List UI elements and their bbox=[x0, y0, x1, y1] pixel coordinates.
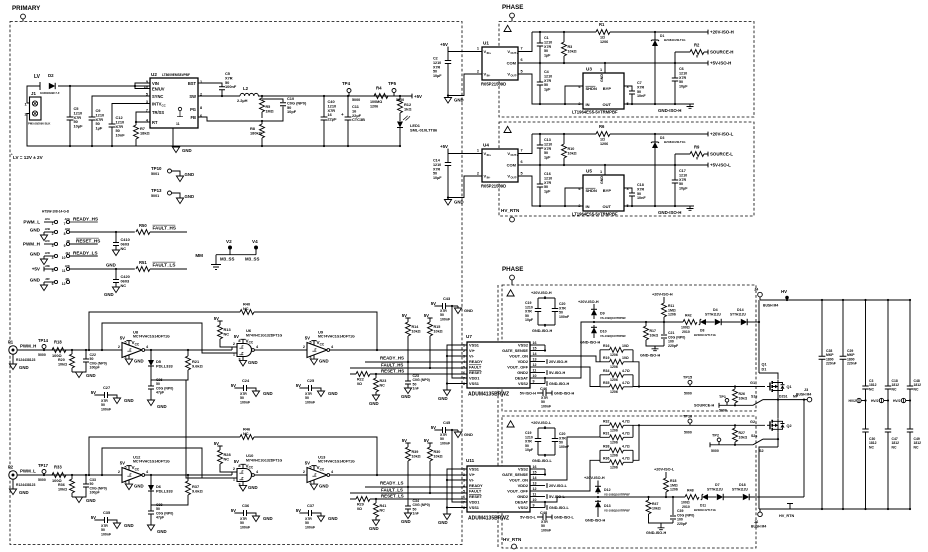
snubber capacitor C3 (NC) bbox=[865, 300, 867, 509]
svg-text:VDD2: VDD2 bbox=[518, 483, 529, 488]
diode D18 STTH112U bbox=[724, 496, 743, 498]
svg-text:VDD1: VDD1 bbox=[469, 500, 480, 505]
svg-text:R51: R51 bbox=[139, 260, 147, 265]
svg-text:FAULT_HS: FAULT_HS bbox=[153, 226, 176, 231]
svg-text:1210: 1210 bbox=[433, 163, 441, 167]
svg-text:11: 11 bbox=[176, 122, 180, 126]
svg-text:5V: 5V bbox=[214, 441, 219, 446]
svg-text:C6: C6 bbox=[679, 67, 684, 71]
svg-text:10: 10 bbox=[144, 85, 148, 89]
svg-text:100nF: 100nF bbox=[240, 525, 251, 529]
svg-text:OUT-: OUT- bbox=[511, 176, 518, 180]
svg-text:TP15: TP15 bbox=[683, 376, 692, 380]
svg-text:PWM_L: PWM_L bbox=[20, 469, 36, 474]
svg-text:2: 2 bbox=[463, 349, 465, 353]
svg-text:10kΩ: 10kΩ bbox=[434, 454, 443, 458]
svg-text:100MΩ: 100MΩ bbox=[370, 100, 382, 104]
svg-text:10kΩ: 10kΩ bbox=[568, 151, 577, 155]
svg-text:D7: D7 bbox=[715, 483, 720, 487]
svg-text:100nF: 100nF bbox=[305, 400, 316, 404]
svg-text:J2A: J2A bbox=[45, 217, 51, 221]
svg-text:8: 8 bbox=[238, 464, 240, 468]
svg-text:COM: COM bbox=[507, 61, 517, 66]
svg-text:R42: R42 bbox=[685, 314, 692, 318]
svg-text:C46: C46 bbox=[540, 386, 548, 391]
svg-text:18kΩ: 18kΩ bbox=[140, 130, 150, 135]
PRIMARY dashed boundary box bbox=[10, 22, 462, 545]
svg-text:D13: D13 bbox=[604, 504, 611, 508]
svg-text:22µF: 22µF bbox=[328, 117, 338, 122]
wire VOUT+ to +20V rail bbox=[518, 32, 708, 52]
svg-text:M74VHC1G132DFT1G: M74VHC1G132DFT1G bbox=[246, 333, 282, 337]
svg-text:+20V-ISO-H: +20V-ISO-H bbox=[531, 291, 552, 295]
svg-text:X7R: X7R bbox=[544, 181, 552, 185]
svg-text:U1: U1 bbox=[483, 41, 489, 46]
svg-text:ADUM4135BRWZ: ADUM4135BRWZ bbox=[468, 392, 509, 398]
capacitor C26 bbox=[150, 380, 152, 400]
resistor R41 (NC) bbox=[375, 499, 377, 520]
svg-text:5000: 5000 bbox=[684, 392, 692, 396]
U7 right side bus bbox=[544, 345, 546, 384]
svg-text:TP10: TP10 bbox=[151, 166, 162, 171]
ground rail bottom of buck bbox=[176, 145, 400, 147]
svg-text:GND: GND bbox=[134, 359, 144, 364]
svg-text:NC: NC bbox=[224, 456, 230, 461]
schmitt inverter U12 bbox=[122, 468, 142, 483]
svg-text:47pF: 47pF bbox=[156, 516, 165, 520]
svg-text:GND: GND bbox=[600, 74, 604, 82]
svg-text:100nF: 100nF bbox=[101, 407, 112, 411]
svg-text:5: 5 bbox=[124, 341, 126, 345]
svg-text:100pF: 100pF bbox=[90, 366, 101, 370]
wire U2 GND pin to rail and GND symbol bbox=[172, 128, 174, 146]
svg-text:X7R: X7R bbox=[637, 187, 645, 191]
svg-text:TP17: TP17 bbox=[38, 463, 49, 468]
svg-text:220nF: 220nF bbox=[847, 362, 857, 366]
svg-text:GND: GND bbox=[19, 490, 29, 495]
wire TR/SS and RT to R7 bbox=[136, 112, 150, 146]
svg-text:5001: 5001 bbox=[151, 172, 159, 176]
svg-text:GND: GND bbox=[157, 404, 167, 409]
svg-text:10kΩ: 10kΩ bbox=[650, 333, 659, 337]
wire DESAT high-side from U7 to sense chain bbox=[545, 322, 683, 378]
svg-text:R36: R36 bbox=[603, 457, 609, 461]
svg-text:+5V: +5V bbox=[32, 267, 41, 272]
svg-text:HV_RTN: HV_RTN bbox=[503, 537, 522, 542]
wire U8 output node bbox=[145, 347, 237, 350]
svg-text:READY_HS: READY_HS bbox=[73, 217, 98, 222]
resistor R6 bbox=[596, 132, 610, 137]
svg-text:VOUT_OFF: VOUT_OFF bbox=[507, 489, 528, 494]
wire OUT line to GND-ISO-L bbox=[624, 205, 694, 207]
svg-text:6: 6 bbox=[521, 58, 523, 62]
svg-text:100nF: 100nF bbox=[440, 441, 451, 445]
svg-text:50: 50 bbox=[544, 151, 548, 155]
wire U3 GND pin to COM bbox=[604, 63, 606, 73]
wire VOUT+ to +20V rail bbox=[518, 134, 708, 154]
resistor pair R34/R35 bbox=[600, 375, 633, 387]
svg-text:SHDN: SHDN bbox=[586, 86, 597, 91]
svg-text:R9: R9 bbox=[694, 145, 700, 150]
svg-text:R34: R34 bbox=[603, 369, 609, 373]
svg-text:1MΩ: 1MΩ bbox=[266, 109, 274, 113]
svg-text:1206: 1206 bbox=[610, 390, 618, 394]
svg-text:GND: GND bbox=[106, 263, 116, 268]
svg-text:TP2: TP2 bbox=[712, 434, 719, 438]
resistor R42 bbox=[683, 320, 697, 325]
svg-text:100nF: 100nF bbox=[559, 315, 570, 319]
capacitor C18 BYP bbox=[624, 188, 632, 206]
svg-text:VSS2: VSS2 bbox=[518, 343, 529, 348]
LDO U5 LT1964 bbox=[583, 175, 624, 211]
svg-text:HV_RTN: HV_RTN bbox=[779, 514, 794, 518]
svg-text:PHASE: PHASE bbox=[502, 266, 523, 273]
wire SHDN to IN bbox=[565, 188, 583, 206]
svg-text:R16: R16 bbox=[603, 344, 609, 348]
svg-text:MC74VHC1G14DFT1G: MC74VHC1G14DFT1G bbox=[318, 335, 355, 339]
svg-text:PM5.08/2/90 BLK: PM5.08/2/90 BLK bbox=[28, 122, 50, 126]
svg-text:1206: 1206 bbox=[610, 466, 618, 470]
svg-text:X7R: X7R bbox=[544, 147, 552, 151]
svg-text:1210: 1210 bbox=[544, 40, 552, 44]
svg-text:R19: R19 bbox=[603, 356, 609, 360]
svg-text:5V: 5V bbox=[231, 383, 236, 388]
svg-text:PWM_L: PWM_L bbox=[23, 220, 40, 225]
svg-text:GND: GND bbox=[124, 398, 134, 403]
diode D6 PDLL333 bbox=[150, 475, 152, 505]
svg-text:S2s: S2s bbox=[751, 434, 757, 438]
svg-text:3: 3 bbox=[238, 482, 240, 486]
capacitor C9 bbox=[89, 117, 96, 120]
svg-text:C24: C24 bbox=[242, 378, 250, 383]
svg-text:1210: 1210 bbox=[544, 142, 552, 146]
svg-text:NC: NC bbox=[121, 283, 127, 288]
zener diode D11 bbox=[702, 494, 708, 500]
high-side gate resistor network R16/R19/R34/R35 bbox=[545, 356, 639, 387]
svg-text:S2: S2 bbox=[759, 449, 764, 453]
svg-text:M74VHC1G132DFT1G: M74VHC1G132DFT1G bbox=[246, 458, 282, 462]
svg-text:R1: R1 bbox=[599, 22, 605, 27]
resistor R26 gate-source bbox=[734, 387, 736, 406]
svg-text:1206: 1206 bbox=[610, 378, 618, 382]
svg-text:PRIMARY: PRIMARY bbox=[12, 5, 41, 12]
wire SW node to +5V output bbox=[198, 95, 412, 97]
svg-text:50: 50 bbox=[433, 70, 437, 74]
wire OUT line to GND-ISO-H bbox=[624, 103, 694, 105]
svg-text:100nF: 100nF bbox=[541, 404, 552, 408]
svg-text:3: 3 bbox=[124, 356, 126, 360]
svg-text:DESAT: DESAT bbox=[515, 500, 529, 505]
svg-text:5V-ISO-L: 5V-ISO-L bbox=[520, 516, 537, 520]
svg-text:6: 6 bbox=[463, 371, 465, 375]
svg-text:IN-: IN- bbox=[487, 176, 491, 180]
zener diode D3 bbox=[654, 134, 656, 206]
low-side gate resistor network R32/R31/R38/R36 bbox=[545, 425, 639, 491]
svg-text:50: 50 bbox=[544, 49, 548, 53]
svg-text:BST: BST bbox=[188, 81, 197, 86]
svg-text:TP5: TP5 bbox=[388, 81, 397, 86]
svg-text:5: 5 bbox=[124, 466, 126, 470]
svg-text:OUT: OUT bbox=[603, 204, 612, 209]
svg-text:C7: C7 bbox=[637, 81, 642, 85]
svg-text:100nF: 100nF bbox=[541, 528, 552, 532]
svg-text:BZX84C4VTLT1G: BZX84C4VTLT1G bbox=[694, 333, 716, 337]
svg-text:GND: GND bbox=[248, 485, 258, 490]
svg-text:SOURCE-H: SOURCE-H bbox=[710, 50, 733, 55]
svg-text:R05P21509D: R05P21509D bbox=[481, 184, 506, 189]
svg-text:8: 8 bbox=[200, 106, 202, 110]
resistor R47 bbox=[649, 497, 674, 523]
svg-text:3: 3 bbox=[309, 481, 311, 485]
svg-text:10kΩ: 10kΩ bbox=[568, 49, 577, 53]
svg-text:Q1: Q1 bbox=[762, 363, 767, 367]
svg-text:VI+: VI+ bbox=[469, 348, 476, 353]
svg-text:1µF: 1µF bbox=[544, 88, 551, 92]
svg-text:180kΩ: 180kΩ bbox=[250, 130, 262, 135]
svg-text:GND-ISO-H: GND-ISO-H bbox=[554, 392, 575, 396]
svg-text:1206: 1206 bbox=[610, 353, 618, 357]
svg-text:VSS1: VSS1 bbox=[469, 343, 480, 348]
capacitor C21 bbox=[655, 322, 664, 350]
svg-text:1kΩ: 1kΩ bbox=[404, 106, 411, 111]
LDO U3 LT1964 bbox=[583, 73, 624, 109]
svg-text:IN-: IN- bbox=[487, 74, 491, 78]
svg-text:C18: C18 bbox=[637, 183, 644, 187]
snubber capacitor C49 (NC) bbox=[907, 429, 913, 432]
svg-text:1206: 1206 bbox=[370, 105, 378, 109]
svg-text:X7R: X7R bbox=[544, 79, 552, 83]
svg-text:BYP: BYP bbox=[603, 86, 612, 91]
net +5V-ISO-H bbox=[707, 61, 709, 66]
svg-text:C2: C2 bbox=[433, 57, 438, 61]
wire U5 GND pin to COM bbox=[604, 165, 606, 175]
svg-text:M3_SS: M3_SS bbox=[245, 257, 259, 262]
svg-text:SYNC: SYNC bbox=[152, 94, 163, 99]
svg-text:GND-ISO-H: GND-ISO-H bbox=[532, 329, 553, 333]
svg-text:J2C: J2C bbox=[45, 239, 51, 243]
svg-text:10µF: 10µF bbox=[74, 124, 84, 129]
capacitor C38 bbox=[150, 505, 152, 525]
wire U6 output to U9 bbox=[255, 349, 308, 351]
capacitor C23 bbox=[407, 362, 409, 388]
svg-text:6: 6 bbox=[521, 160, 523, 164]
svg-text:R6: R6 bbox=[599, 124, 605, 129]
HV/2 midpoint connector bbox=[879, 398, 883, 402]
svg-text:STTH112U: STTH112U bbox=[707, 488, 723, 492]
net +20V-ISO-H bbox=[707, 30, 709, 35]
svg-text:5000: 5000 bbox=[719, 409, 727, 413]
svg-text:5V: 5V bbox=[431, 301, 436, 306]
svg-text:2: 2 bbox=[477, 172, 479, 176]
svg-text:1206: 1206 bbox=[600, 40, 608, 44]
resistor R21 bbox=[151, 350, 188, 380]
svg-text:X7R: X7R bbox=[433, 65, 441, 69]
svg-text:2: 2 bbox=[233, 342, 235, 346]
diode D5 PDLL333 bbox=[150, 350, 152, 380]
wire high-side gate line G1 bbox=[633, 386, 765, 388]
wire low-side gate line G2 bbox=[633, 424, 765, 426]
svg-text:R10: R10 bbox=[568, 147, 575, 151]
svg-text:+20V-ISO-L: +20V-ISO-L bbox=[654, 468, 675, 472]
svg-text:VSS1: VSS1 bbox=[469, 381, 480, 386]
zener diode D8 bbox=[700, 319, 706, 325]
svg-text:+20V-ISO-L: +20V-ISO-L bbox=[531, 421, 552, 425]
svg-text:10nF: 10nF bbox=[637, 196, 646, 200]
cross-coupling wire to NAND input bbox=[102, 448, 237, 478]
capacitor C16 bbox=[518, 165, 583, 206]
svg-text:COM: COM bbox=[507, 163, 517, 168]
svg-text:1nF: 1nF bbox=[413, 512, 420, 516]
svg-text:10: 10 bbox=[62, 256, 66, 260]
resistor R17 bbox=[646, 322, 664, 346]
cross-channel wire from high side network to U10 input bbox=[186, 380, 237, 478]
svg-text:R2: R2 bbox=[694, 43, 700, 48]
svg-text:PG: PG bbox=[190, 107, 196, 112]
svg-text:RESET_LS: RESET_LS bbox=[381, 494, 404, 499]
wire FB to divider bbox=[198, 117, 262, 121]
svg-text:5V: 5V bbox=[231, 508, 236, 513]
isolated DC-DC converter U4 R05P21509D bbox=[482, 149, 518, 182]
schmitt inverter U9 bbox=[307, 343, 327, 358]
svg-text:GND-ISO-H: GND-ISO-H bbox=[658, 210, 681, 215]
capacitor C420 (NC) bbox=[115, 269, 117, 287]
svg-text:GND-ISO-H: GND-ISO-H bbox=[658, 108, 681, 113]
net +5V-ISO-L bbox=[707, 163, 709, 168]
connector J3 BUSH M4 bbox=[807, 397, 812, 402]
svg-text:GND-ISO-H: GND-ISO-H bbox=[585, 519, 606, 523]
test point TP17 bbox=[42, 470, 46, 474]
test point TP4 bbox=[347, 89, 351, 93]
svg-text:D9: D9 bbox=[600, 312, 605, 316]
svg-text:9: 9 bbox=[64, 244, 66, 248]
svg-text:PWM_H: PWM_H bbox=[20, 344, 36, 349]
svg-text:+20V-ISO-L: +20V-ISO-L bbox=[710, 132, 734, 137]
svg-text:1210: 1210 bbox=[544, 74, 552, 78]
svg-text:J2D: J2D bbox=[45, 251, 50, 255]
svg-text:GND-ISO-L: GND-ISO-L bbox=[554, 516, 575, 520]
svg-text:FB: FB bbox=[191, 115, 197, 120]
svg-text:GND: GND bbox=[86, 373, 96, 378]
svg-text:5V: 5V bbox=[91, 390, 96, 395]
svg-text:Q2: Q2 bbox=[787, 424, 792, 428]
svg-text:X7R: X7R bbox=[433, 167, 441, 171]
svg-text:R36: R36 bbox=[58, 483, 65, 487]
wire desat low to midpoint bbox=[750, 400, 805, 497]
svg-text:FAULT: FAULT bbox=[469, 489, 482, 494]
svg-text:X7R: X7R bbox=[679, 178, 687, 182]
svg-text:TP1: TP1 bbox=[719, 395, 726, 399]
schmitt inverter U8 bbox=[122, 343, 142, 358]
svg-text:VI-: VI- bbox=[469, 478, 475, 483]
svg-text:10pF: 10pF bbox=[287, 109, 297, 114]
svg-text:SML-010LTT86: SML-010LTT86 bbox=[410, 128, 438, 133]
svg-text:CC: CC bbox=[320, 342, 325, 346]
svg-text:GND: GND bbox=[248, 360, 258, 365]
svg-text:4.7Ω: 4.7Ω bbox=[622, 369, 630, 373]
svg-text:VSS1: VSS1 bbox=[469, 505, 480, 510]
svg-text:READY_HS: READY_HS bbox=[380, 356, 404, 361]
svg-text:ADUM4135BRWZ: ADUM4135BRWZ bbox=[468, 516, 509, 522]
svg-text:1206: 1206 bbox=[610, 429, 618, 433]
capacitor C4 bbox=[518, 63, 583, 104]
svg-text:2010: 2010 bbox=[682, 505, 690, 509]
svg-text:10kΩ: 10kΩ bbox=[412, 329, 421, 333]
resistor R5 feedback top bbox=[261, 96, 263, 118]
svg-text:MC74VHC1G14DFT1G: MC74VHC1G14DFT1G bbox=[133, 335, 170, 339]
svg-text:NC: NC bbox=[380, 508, 386, 512]
connector J1 bbox=[30, 97, 42, 120]
svg-text:GND: GND bbox=[104, 292, 114, 297]
svg-text:VSS2: VSS2 bbox=[518, 505, 529, 510]
svg-text:V4: V4 bbox=[252, 239, 258, 244]
svg-text:U2: U2 bbox=[151, 72, 157, 77]
svg-text:GND: GND bbox=[157, 529, 167, 534]
svg-text:GND: GND bbox=[401, 519, 411, 524]
svg-text:2: 2 bbox=[303, 470, 305, 474]
PHASE half-bridge box low-side (dashed) bbox=[502, 416, 756, 548]
svg-text:5: 5 bbox=[309, 341, 311, 345]
capacitor C14 input bypass bbox=[445, 163, 451, 166]
svg-text:20V-ISO-H: 20V-ISO-H bbox=[549, 360, 568, 364]
svg-text:100nF: 100nF bbox=[240, 400, 251, 404]
svg-text:C48: C48 bbox=[540, 510, 548, 515]
svg-text:GND: GND bbox=[464, 432, 473, 437]
wire U9 output line bbox=[330, 349, 468, 351]
svg-text:4.7Ω: 4.7Ω bbox=[622, 445, 630, 449]
svg-text:+5V: +5V bbox=[414, 94, 422, 99]
svg-text:EN/UV: EN/UV bbox=[152, 86, 165, 91]
svg-text:U4: U4 bbox=[483, 143, 489, 148]
snubber capacitor C48 (NC) bbox=[909, 300, 911, 509]
capacitor C39 bbox=[661, 497, 673, 526]
svg-text:1206: 1206 bbox=[670, 488, 678, 492]
MOSFET Q2 bbox=[767, 424, 770, 426]
HV/2 midpoint connector bbox=[901, 398, 905, 402]
svg-text:PDLL333: PDLL333 bbox=[156, 363, 173, 368]
svg-text:GND-ISO-H: GND-ISO-H bbox=[646, 531, 667, 535]
wire COM line bbox=[518, 62, 708, 64]
svg-text:BZX84C20LT1G: BZX84C20LT1G bbox=[664, 140, 686, 144]
svg-text:5000: 5000 bbox=[684, 430, 692, 434]
zener diode D1 bbox=[654, 32, 656, 104]
svg-text:10kΩ: 10kΩ bbox=[739, 396, 748, 400]
net 5V-ISO-L at GND2 bbox=[546, 494, 548, 499]
svg-text:10µF: 10µF bbox=[525, 448, 534, 452]
PHASE half-bridge box high-side (dashed) bbox=[502, 285, 756, 411]
svg-text:GND2: GND2 bbox=[517, 494, 529, 499]
svg-text:1210: 1210 bbox=[679, 173, 687, 177]
diode D14 STTH112U bbox=[722, 321, 741, 323]
svg-text:INTV: INTV bbox=[152, 101, 162, 106]
svg-text:FAULT_LS: FAULT_LS bbox=[153, 263, 176, 268]
feedback resistor R46 (NC) line bbox=[89, 437, 377, 475]
resistor R4 bbox=[374, 94, 388, 99]
svg-text:4.7Ω: 4.7Ω bbox=[622, 457, 630, 461]
svg-text:D1: D1 bbox=[762, 368, 767, 372]
svg-text:PHASE: PHASE bbox=[502, 4, 523, 11]
wire PWM_H input line bbox=[17, 349, 122, 351]
svg-text:3: 3 bbox=[309, 356, 311, 360]
svg-text:50: 50 bbox=[544, 83, 548, 87]
svg-text:10µF: 10µF bbox=[433, 176, 442, 180]
svg-text:D2S1: D2S1 bbox=[779, 394, 788, 398]
diode D2 bbox=[49, 83, 55, 89]
svg-text:FAULT_LS: FAULT_LS bbox=[381, 488, 403, 493]
svg-text:4: 4 bbox=[463, 360, 465, 364]
svg-text:OUT: OUT bbox=[603, 102, 612, 107]
bus capacitor C29 bbox=[842, 300, 844, 509]
svg-text:+20V-ISO-H: +20V-ISO-H bbox=[710, 30, 734, 35]
